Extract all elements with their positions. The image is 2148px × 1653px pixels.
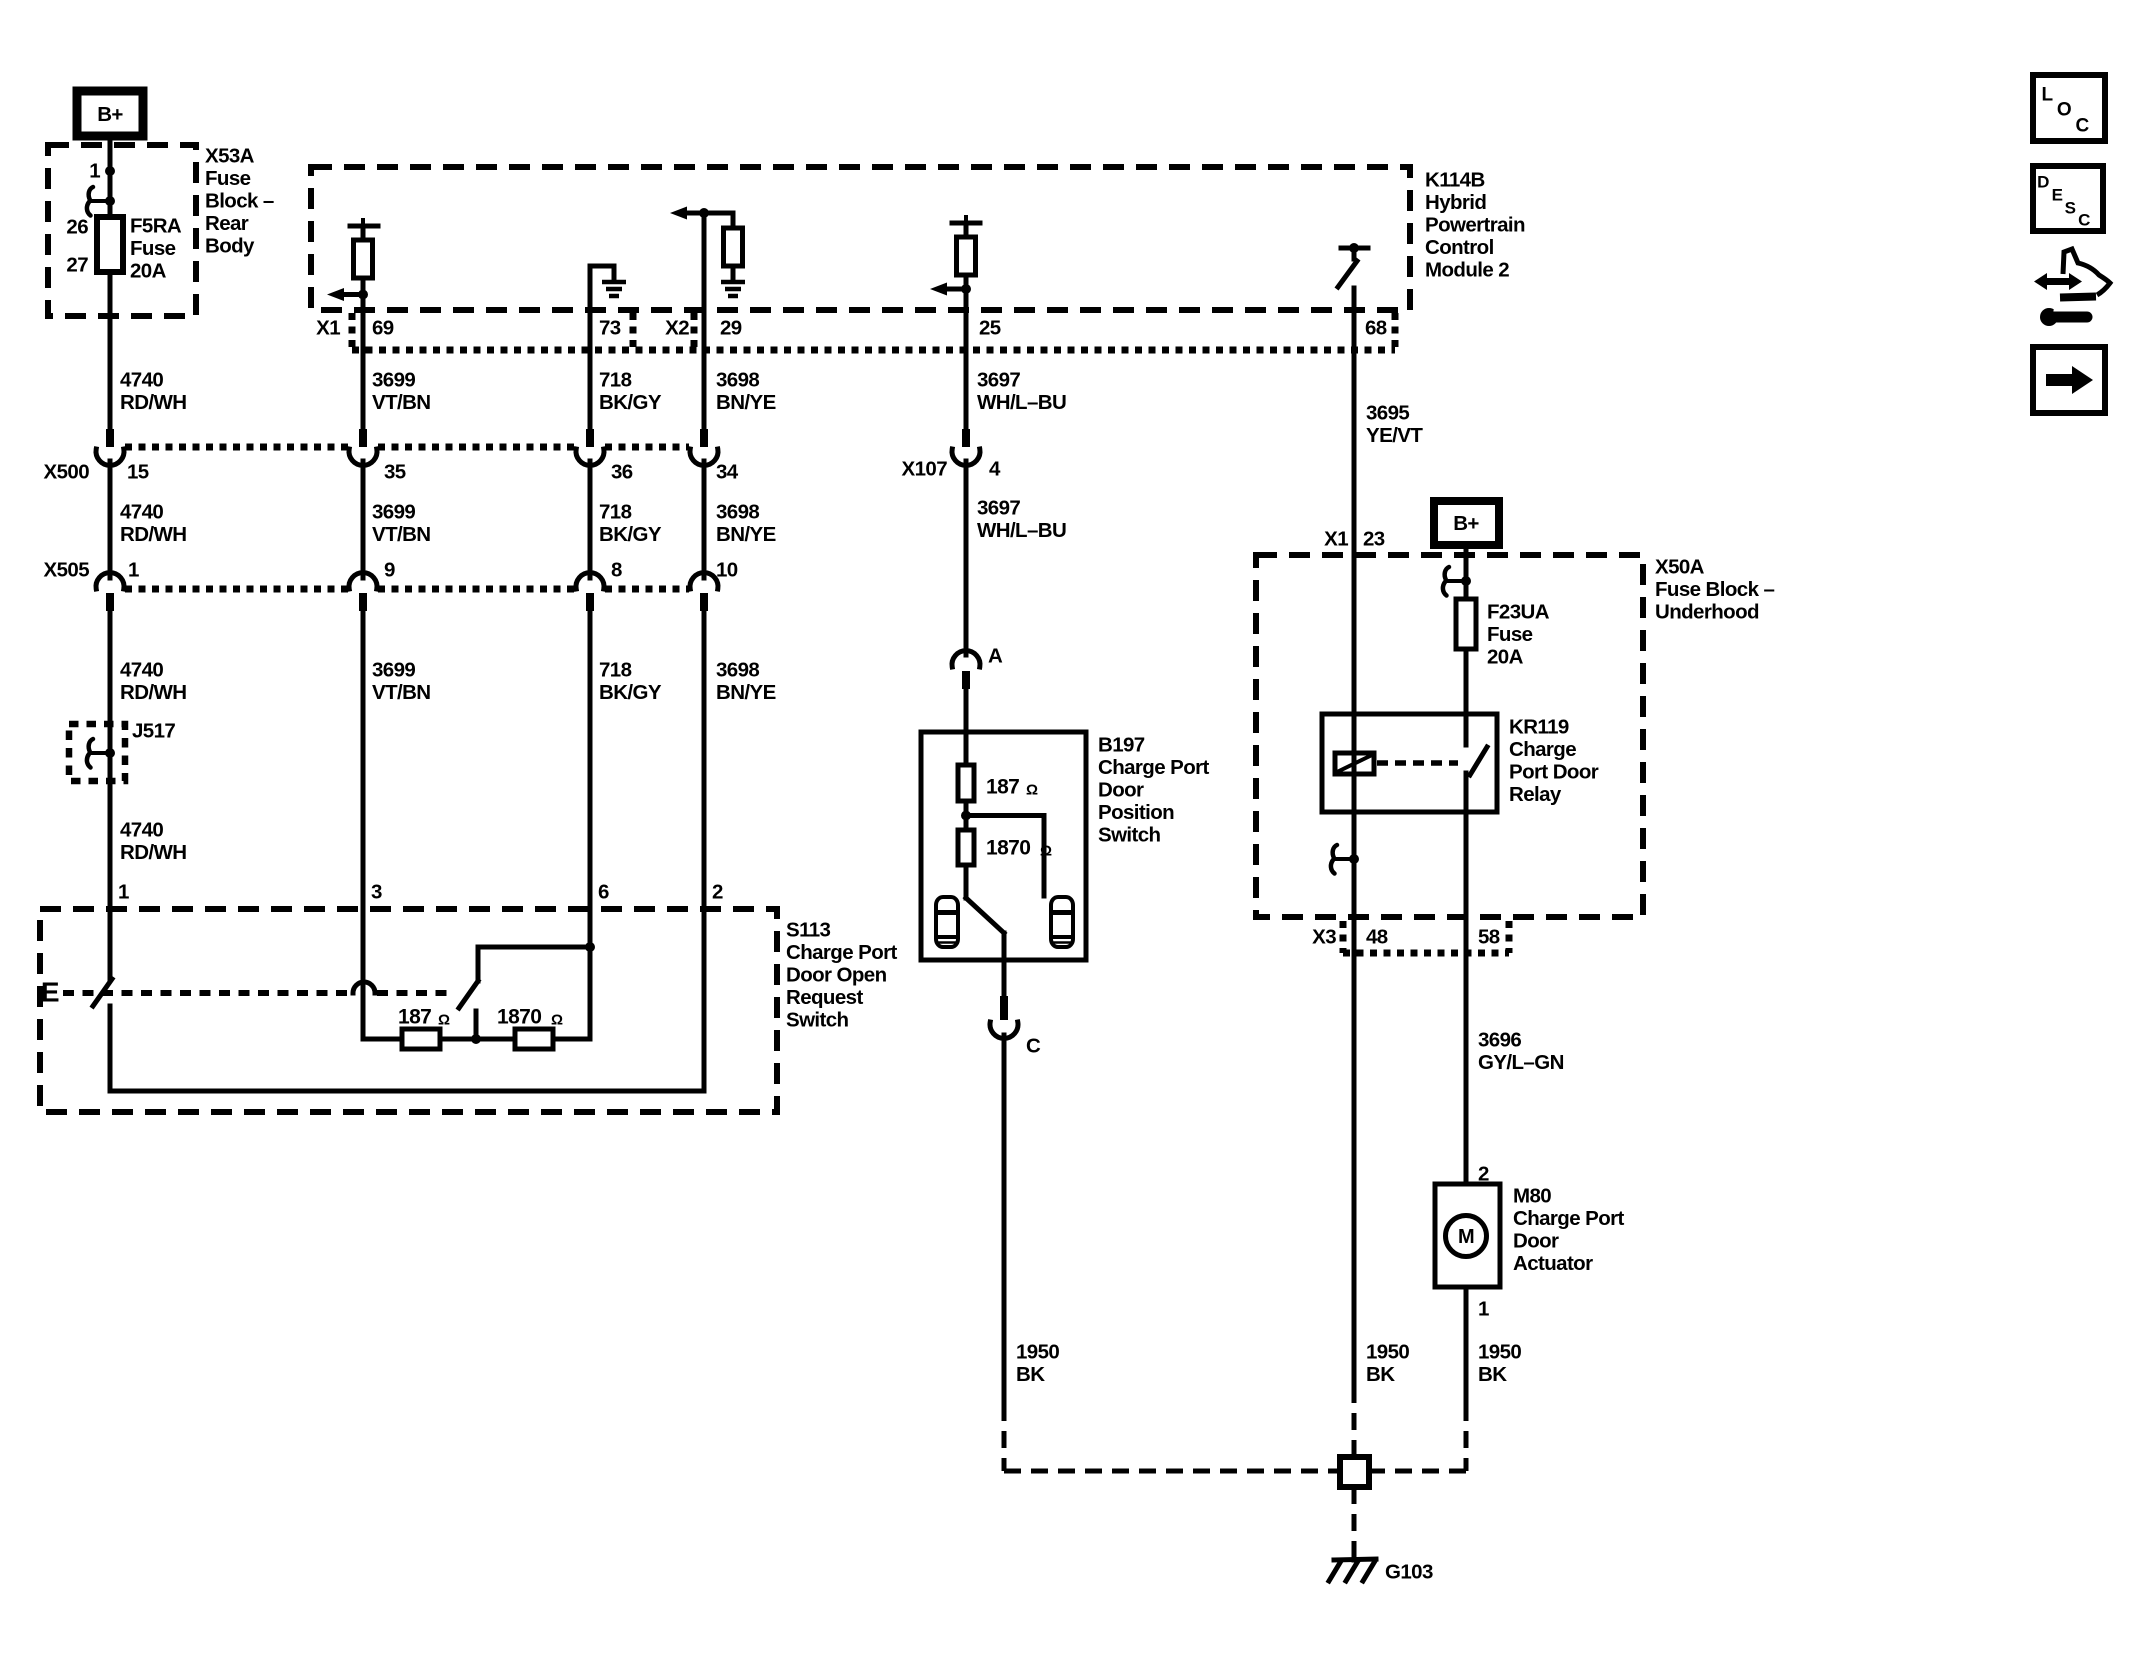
switch S113 dashed box (40, 909, 777, 1112)
svg-text:1870: 1870 (986, 837, 1030, 860)
svg-text:X53A: X53A (205, 145, 255, 168)
svg-text:S: S (2065, 199, 2076, 218)
wire M80 to ground bus (1464, 1287, 1469, 1404)
svg-text:RD/WH: RD/WH (120, 391, 186, 414)
svg-text:26: 26 (66, 216, 88, 239)
label pin 73 (599, 317, 621, 340)
svg-text:KR119: KR119 (1509, 716, 1569, 739)
svg-text:3699: 3699 (372, 369, 415, 392)
svg-text:3697: 3697 (977, 369, 1020, 392)
svg-text:3697: 3697 (977, 497, 1020, 520)
svg-text:Control: Control (1425, 236, 1494, 259)
label wire 3699 VT/BN (1) (372, 369, 431, 415)
svg-text:Door: Door (1098, 779, 1144, 802)
wire 718 X505 to S113 (588, 611, 593, 909)
label wire 1950 BK (left) (1016, 1341, 1059, 1387)
ground splice junction (1340, 1457, 1369, 1487)
resistor to ground pin 29 (704, 213, 745, 296)
internal switch pin 68 (1338, 243, 1368, 287)
label pin 68 (1365, 317, 1387, 340)
svg-text:VT/BN: VT/BN (372, 391, 431, 414)
wire 718 X500 to X505 (588, 461, 593, 578)
terminal clip in X53A (87, 187, 115, 216)
svg-text:25: 25 (979, 317, 1001, 340)
power symbol B+ battery feed (right) (1434, 501, 1499, 545)
svg-text:BN/YE: BN/YE (716, 681, 776, 704)
svg-text:X505: X505 (44, 559, 90, 582)
svg-text:27: 27 (66, 254, 88, 277)
svg-text:718: 718 (599, 501, 632, 524)
label M80 Charge Port Door Actuator (1513, 1185, 1624, 1276)
wire relay to X3 pin 58 (1464, 773, 1469, 1184)
label wire 718 BK/GY (3) (599, 659, 662, 705)
label wire 3697 WH/L-BU (1) (977, 369, 1066, 415)
terminal clip above X3 (1331, 845, 1359, 874)
svg-text:35: 35 (384, 461, 406, 484)
svg-text:Module 2: Module 2 (1425, 259, 1509, 282)
svg-text:4: 4 (989, 458, 1001, 481)
svg-text:Charge: Charge (1509, 738, 1576, 761)
label wire 3698 BN/YE (3) (716, 659, 776, 705)
svg-text:Door: Door (1513, 1230, 1559, 1253)
svg-text:RD/WH: RD/WH (120, 681, 186, 704)
svg-text:X50A: X50A (1655, 556, 1705, 579)
label F23UA Fuse 20A (1487, 601, 1550, 669)
svg-text:K114B: K114B (1425, 169, 1485, 192)
svg-text:X1: X1 (1324, 528, 1348, 551)
label wire 4740 RD/WH (2) (120, 501, 186, 547)
wire 3698 X505 to S113 (702, 611, 707, 909)
svg-text:VT/BN: VT/BN (372, 681, 431, 704)
connector X500 terminal pin 34 (690, 429, 718, 465)
label K114B Hybrid Powertrain Control Module 2 (1425, 169, 1525, 282)
wire pin3 into S113 (361, 909, 366, 1039)
label X500 and pins 15 35 36 34 (44, 461, 739, 484)
svg-text:69: 69 (372, 317, 394, 340)
label pin C (1026, 1035, 1041, 1058)
connector X500 dotted line (125, 444, 689, 451)
svg-text:Powertrain: Powertrain (1425, 214, 1525, 237)
svg-text:Request: Request (786, 986, 863, 1009)
label J517 (132, 720, 175, 743)
connector X500 terminal pin 36 (576, 429, 604, 465)
connector X505 dotted line (125, 586, 689, 593)
svg-text:F23UA: F23UA (1487, 601, 1550, 624)
node mid resistor divider (440, 1034, 515, 1044)
node and left arrow pin 25 (930, 283, 971, 296)
splice J517 dashed box (69, 724, 125, 781)
fuse block X53A dashed box (48, 145, 196, 316)
wire fuse to relay contact (1464, 649, 1469, 745)
connector X500 terminal pin 35 (349, 429, 377, 465)
wire pin6 into S113 (588, 909, 593, 1039)
resistor 1870 ohm in B197 (958, 830, 1052, 865)
bottom rail S113 to pin 2 (110, 1089, 704, 1094)
icon arrow box (2033, 347, 2105, 413)
label wire 4740 RD/WH (4) (120, 819, 186, 865)
resistor 187 ohm in S113 (363, 1006, 450, 1050)
icon hand with double arrow and wrench (2034, 249, 2110, 326)
label wire 1950 BK (right) (1478, 1341, 1521, 1387)
svg-text:BK/GY: BK/GY (599, 681, 662, 704)
wire pin2 into S113 (702, 909, 707, 1091)
label X1 pin 23 (1324, 528, 1385, 551)
label M80 pin 2 (1478, 1163, 1489, 1186)
relay KR119 box (1322, 714, 1497, 812)
svg-text:Ω: Ω (551, 1012, 563, 1029)
svg-text:9: 9 (384, 559, 395, 582)
relay linkage dashed (1377, 760, 1458, 766)
label X3 pins 48 58 (1312, 926, 1500, 949)
svg-text:J517: J517 (132, 720, 175, 743)
connector X500 terminal pin 15 (96, 429, 124, 465)
wire pin 29 to connector (702, 213, 707, 429)
svg-text:36: 36 (611, 461, 633, 484)
svg-text:M: M (1458, 1226, 1474, 1248)
svg-text:Charge Port: Charge Port (1513, 1207, 1624, 1230)
label wire 3698 BN/YE (2) (716, 501, 776, 547)
resistor 187 ohm in B197 (958, 765, 1038, 801)
wire pin 68 down to X50A (1352, 288, 1357, 859)
wire 3697 X107 to A (964, 461, 969, 655)
svg-text:Ω: Ω (1026, 782, 1038, 799)
wire 1950 BK from C (1002, 1035, 1007, 1404)
connector X505 terminal pin 8 (576, 573, 604, 611)
branch to open contact (966, 816, 1044, 897)
svg-text:C: C (1026, 1035, 1041, 1058)
connector C terminal (990, 996, 1018, 1038)
label M80 pin 1 (1478, 1298, 1489, 1321)
svg-text:4740: 4740 (120, 369, 163, 392)
svg-text:Fuse Block –: Fuse Block – (1655, 578, 1774, 601)
svg-text:Ω: Ω (1040, 843, 1052, 860)
label X50A Fuse Block - Underhood (1655, 556, 1774, 624)
svg-text:Rear: Rear (205, 212, 249, 235)
svg-text:2: 2 (712, 881, 723, 904)
svg-text:10: 10 (716, 559, 738, 582)
wire 4740 X500 to X505 (108, 461, 113, 578)
wire fuse to X500 pin 15 (108, 272, 113, 429)
svg-text:73: 73 (599, 317, 621, 340)
svg-text:58: 58 (1478, 926, 1500, 949)
fuse block X50A dashed box (1256, 555, 1643, 917)
svg-text:4740: 4740 (120, 659, 163, 682)
label wire 718 BK/GY (2) (599, 501, 662, 547)
svg-text:187: 187 (986, 776, 1019, 799)
svg-text:23: 23 (1363, 528, 1385, 551)
dashed wire to G103 (1352, 1487, 1357, 1554)
internal ground pin 73 (590, 266, 626, 296)
svg-text:Position: Position (1098, 801, 1174, 824)
svg-text:29: 29 (720, 317, 742, 340)
svg-text:Fuse: Fuse (130, 237, 176, 260)
label wire 3699 VT/BN (3) (372, 659, 431, 705)
icon DESC box (2033, 166, 2103, 231)
relay switch blade (1470, 747, 1487, 775)
svg-text:BK: BK (1478, 1363, 1507, 1386)
connector line X1/X2 of K114B (dotted) (352, 313, 1395, 350)
node B197 divider (961, 801, 971, 830)
label wire 3699 VT/BN (2) (372, 501, 431, 547)
node and left arrow pin 29 (670, 207, 709, 220)
label X1 pin 69 (316, 317, 394, 340)
svg-text:Switch: Switch (1098, 824, 1161, 847)
motor symbol M (1446, 1216, 1487, 1257)
svg-text:X3: X3 (1312, 926, 1336, 949)
svg-text:Body: Body (205, 235, 255, 258)
connector X505 terminal pin 10 (690, 573, 718, 611)
svg-text:Relay: Relay (1509, 783, 1562, 806)
internal terminator pin 69 (350, 218, 378, 226)
svg-text:F5RA: F5RA (130, 215, 182, 238)
dashed ground wire middle (1352, 1386, 1357, 1457)
svg-text:Port Door: Port Door (1509, 761, 1599, 784)
resistor inside K114B pin 25 (957, 223, 976, 275)
svg-text:GY/L–GN: GY/L–GN (1478, 1051, 1564, 1074)
label wire 3698 BN/YE (1) (716, 369, 776, 415)
wire into B197 (964, 732, 969, 765)
svg-text:X500: X500 (44, 461, 90, 484)
svg-text:BN/YE: BN/YE (716, 391, 776, 414)
svg-text:1: 1 (118, 881, 129, 904)
label X107 pin 4 (902, 458, 1001, 481)
dashed ground wire from C (1004, 1404, 1340, 1471)
wire selector to pin 6 (478, 942, 595, 952)
svg-text:Block –: Block – (205, 190, 274, 213)
power symbol B+ battery feed (left) (77, 91, 143, 136)
svg-text:Charge Port: Charge Port (1098, 756, 1209, 779)
label KR119 Charge Port Door Relay (1509, 716, 1599, 807)
svg-text:RD/WH: RD/WH (120, 841, 186, 864)
svg-text:3699: 3699 (372, 501, 415, 524)
node pin 1 of X53A (89, 160, 115, 183)
svg-text:6: 6 (598, 881, 609, 904)
wire B+ to fuse F5RA (108, 136, 113, 217)
connector X505 terminal pin 1 (96, 573, 124, 611)
svg-text:Underhood: Underhood (1655, 601, 1759, 624)
dashed ground wire right (1369, 1404, 1466, 1471)
label F5RA Fuse 20A (130, 215, 182, 283)
svg-text:C: C (2078, 211, 2090, 230)
icon car door open (right) (1051, 897, 1073, 947)
connector X3 dotted line (1343, 921, 1509, 953)
connector A terminal (952, 651, 980, 689)
wire pin 69 to connector (361, 278, 366, 429)
svg-text:3695: 3695 (1366, 402, 1409, 425)
label wire 4740 RD/WH (1) (120, 369, 186, 415)
terminal clip below B+ (1443, 567, 1471, 596)
switch blade B197 (966, 865, 1004, 933)
svg-text:O: O (2057, 100, 2071, 121)
svg-text:B+: B+ (1453, 512, 1479, 535)
svg-text:RD/WH: RD/WH (120, 523, 186, 546)
svg-text:M80: M80 (1513, 1185, 1551, 1208)
svg-text:Actuator: Actuator (1513, 1252, 1593, 1275)
label wire 4740 RD/WH (3) (120, 659, 186, 705)
wire 3695 relay coil to ground bus (1352, 859, 1357, 1386)
module K114B dashed box (311, 167, 1410, 310)
fuse F5RA 20A (97, 217, 123, 272)
svg-text:1: 1 (1478, 1298, 1489, 1321)
svg-text:34: 34 (716, 461, 739, 484)
label pin 25 (979, 317, 1001, 340)
label pins 26 27 (66, 216, 88, 277)
svg-text:X2: X2 (665, 317, 689, 340)
svg-text:Door Open: Door Open (786, 964, 887, 987)
wire A to B197 (964, 689, 969, 732)
label X53A Fuse Block - Rear Body (205, 145, 274, 258)
svg-text:Charge Port: Charge Port (786, 941, 897, 964)
ground G103 symbol (1329, 1550, 1376, 1581)
switch B197 box (921, 732, 1086, 960)
svg-text:8: 8 (611, 559, 622, 582)
switch blade S113 main (93, 979, 112, 1006)
svg-text:X1: X1 (316, 317, 340, 340)
svg-text:3699: 3699 (372, 659, 415, 682)
svg-text:Ω: Ω (438, 1012, 450, 1029)
svg-text:Fuse: Fuse (1487, 623, 1533, 646)
svg-text:E: E (41, 977, 59, 1008)
svg-text:BK/GY: BK/GY (599, 391, 662, 414)
connector X107 terminal pin 4 (952, 429, 980, 465)
switch blade S113 selector (459, 947, 478, 1008)
label X505 and pins 1 9 8 10 (44, 559, 738, 582)
svg-text:718: 718 (599, 659, 632, 682)
mechanical link dashed E line (63, 982, 455, 993)
svg-text:718: 718 (599, 369, 632, 392)
splice J517 clip symbol (87, 739, 115, 768)
svg-text:B+: B+ (97, 103, 123, 126)
label wire 3696 GY/L-GN (1478, 1029, 1564, 1075)
wire pin 25 to connector (964, 275, 969, 429)
svg-text:20A: 20A (1487, 646, 1524, 669)
label S113 Charge Port Door Open Request Switch (786, 919, 897, 1032)
svg-text:1870: 1870 (497, 1006, 541, 1029)
node and left arrow pin 69 (327, 288, 368, 301)
selector contact stem (474, 1011, 479, 1039)
svg-text:Hybrid: Hybrid (1425, 191, 1486, 214)
svg-text:4740: 4740 (120, 501, 163, 524)
svg-text:1950: 1950 (1016, 1341, 1059, 1364)
svg-text:3: 3 (371, 881, 382, 904)
wire 3699 X505 to S113 (361, 611, 366, 909)
svg-text:1950: 1950 (1478, 1341, 1521, 1364)
label wire 3695 YE/VT (1366, 402, 1423, 448)
icon LOC box (2033, 75, 2105, 141)
resistor 1870 ohm in S113 (497, 1006, 590, 1050)
actuator M80 box (1435, 1184, 1500, 1287)
svg-text:S113: S113 (786, 919, 831, 942)
svg-text:Fuse: Fuse (205, 167, 251, 190)
icon car door closed (left) (936, 897, 958, 947)
svg-text:4740: 4740 (120, 819, 163, 842)
svg-text:20A: 20A (130, 260, 167, 283)
svg-text:3698: 3698 (716, 659, 759, 682)
wire 3698 X500 to X505 (702, 461, 707, 578)
wire blade to pin C (1002, 933, 1007, 996)
label pin A (988, 645, 1003, 668)
svg-text:WH/L–BU: WH/L–BU (977, 519, 1066, 542)
svg-text:L: L (2041, 85, 2053, 106)
svg-text:VT/BN: VT/BN (372, 523, 431, 546)
svg-text:BK: BK (1016, 1363, 1045, 1386)
svg-text:B197: B197 (1098, 734, 1145, 757)
wire pin1 lower to bottom rail (108, 1006, 113, 1091)
wire B+ to fuse F23UA (1464, 545, 1469, 599)
svg-text:WH/L–BU: WH/L–BU (977, 391, 1066, 414)
svg-text:D: D (2037, 173, 2049, 192)
wire pin1 into S113 (108, 909, 113, 980)
svg-text:68: 68 (1365, 317, 1387, 340)
connector X505 terminal pin 9 (349, 573, 377, 611)
svg-text:48: 48 (1366, 926, 1388, 949)
internal terminator pin 25 (952, 215, 980, 223)
svg-text:E: E (2052, 186, 2063, 205)
svg-text:187: 187 (398, 1006, 431, 1029)
svg-text:BN/YE: BN/YE (716, 523, 776, 546)
svg-text:1: 1 (89, 160, 100, 183)
fuse F23UA 20A (1456, 599, 1476, 649)
relay coil KR119 (1335, 753, 1374, 774)
resistor inside K114B pin 69 (354, 226, 373, 278)
label wire 718 BK/GY (1) (599, 369, 662, 415)
svg-text:3696: 3696 (1478, 1029, 1521, 1052)
label E actuator (41, 977, 59, 1008)
svg-text:1950: 1950 (1366, 1341, 1409, 1364)
label S113 pins 1 3 6 2 (118, 881, 723, 904)
label B197 Charge Port Door Position Switch (1098, 734, 1209, 847)
svg-text:3698: 3698 (716, 369, 759, 392)
svg-text:YE/VT: YE/VT (1366, 424, 1423, 447)
svg-text:G103: G103 (1385, 1561, 1433, 1584)
svg-text:BK: BK (1366, 1363, 1395, 1386)
svg-text:BK/GY: BK/GY (599, 523, 662, 546)
wire 3699 X500 to X505 (361, 461, 366, 578)
svg-text:1: 1 (128, 559, 139, 582)
wire pin 73 to connector (588, 266, 593, 429)
svg-text:3698: 3698 (716, 501, 759, 524)
svg-text:C: C (2075, 116, 2089, 137)
svg-text:A: A (988, 645, 1003, 668)
label wire 1950 BK (middle) (1366, 1341, 1409, 1387)
svg-text:X107: X107 (902, 458, 948, 481)
wire 4740 X505 to J517 (108, 611, 113, 909)
label X2 pin 29 (665, 317, 742, 340)
label G103 (1385, 1561, 1433, 1584)
label wire 3697 WH/L-BU (2) (977, 497, 1066, 543)
svg-text:Switch: Switch (786, 1009, 849, 1032)
svg-text:15: 15 (127, 461, 149, 484)
